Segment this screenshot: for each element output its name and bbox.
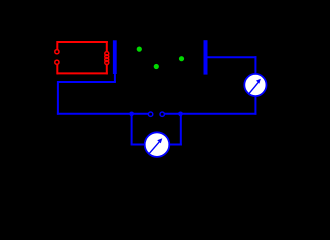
battery terminal circle right (bottom rail) [160,112,164,116]
anode/cathode circuit wiring (blue) [57,56,257,145]
wire cathode horizontal run [58,81,116,83]
heater filament coil L1 [105,52,109,65]
electron 3 [179,56,184,61]
wire right edge lower [106,64,108,75]
junction node right [178,111,183,116]
wire right edge upper [106,41,108,53]
heater supply loop (red) [57,41,108,74]
cathode plate (blue bar) [113,40,117,74]
wire bottom edge of heater loop [57,72,108,74]
voltmeter M2 [145,132,170,157]
wire cathode lead stub [114,74,116,83]
terminal circle upper (heater supply) [55,50,59,54]
battery terminal circle left (bottom rail) [148,112,152,116]
wire left edge upper [56,41,58,49]
anode plate (blue bar) [204,40,208,74]
microammeter M1 [244,74,266,96]
terminal circle lower (heater supply) [55,60,59,64]
wire left edge lower [56,65,58,75]
wire microammeter lower lead [254,96,256,115]
wire voltmeter branch left horizontal [131,144,145,146]
wire top edge of heater loop [57,41,108,43]
wire voltmeter branch right horizontal [169,144,182,146]
wire left vertical drop [57,81,59,115]
electron 2 [154,64,159,69]
electron 1 [137,47,142,52]
wire microammeter upper lead [254,56,256,74]
wire bottom rail left segment [57,113,148,115]
junction node left [129,111,134,116]
wire bottom rail right segment [165,113,257,115]
wire voltmeter branch right vertical [180,113,182,146]
wire voltmeter branch left vertical [131,113,133,145]
wire anode tap horizontal [208,56,257,58]
